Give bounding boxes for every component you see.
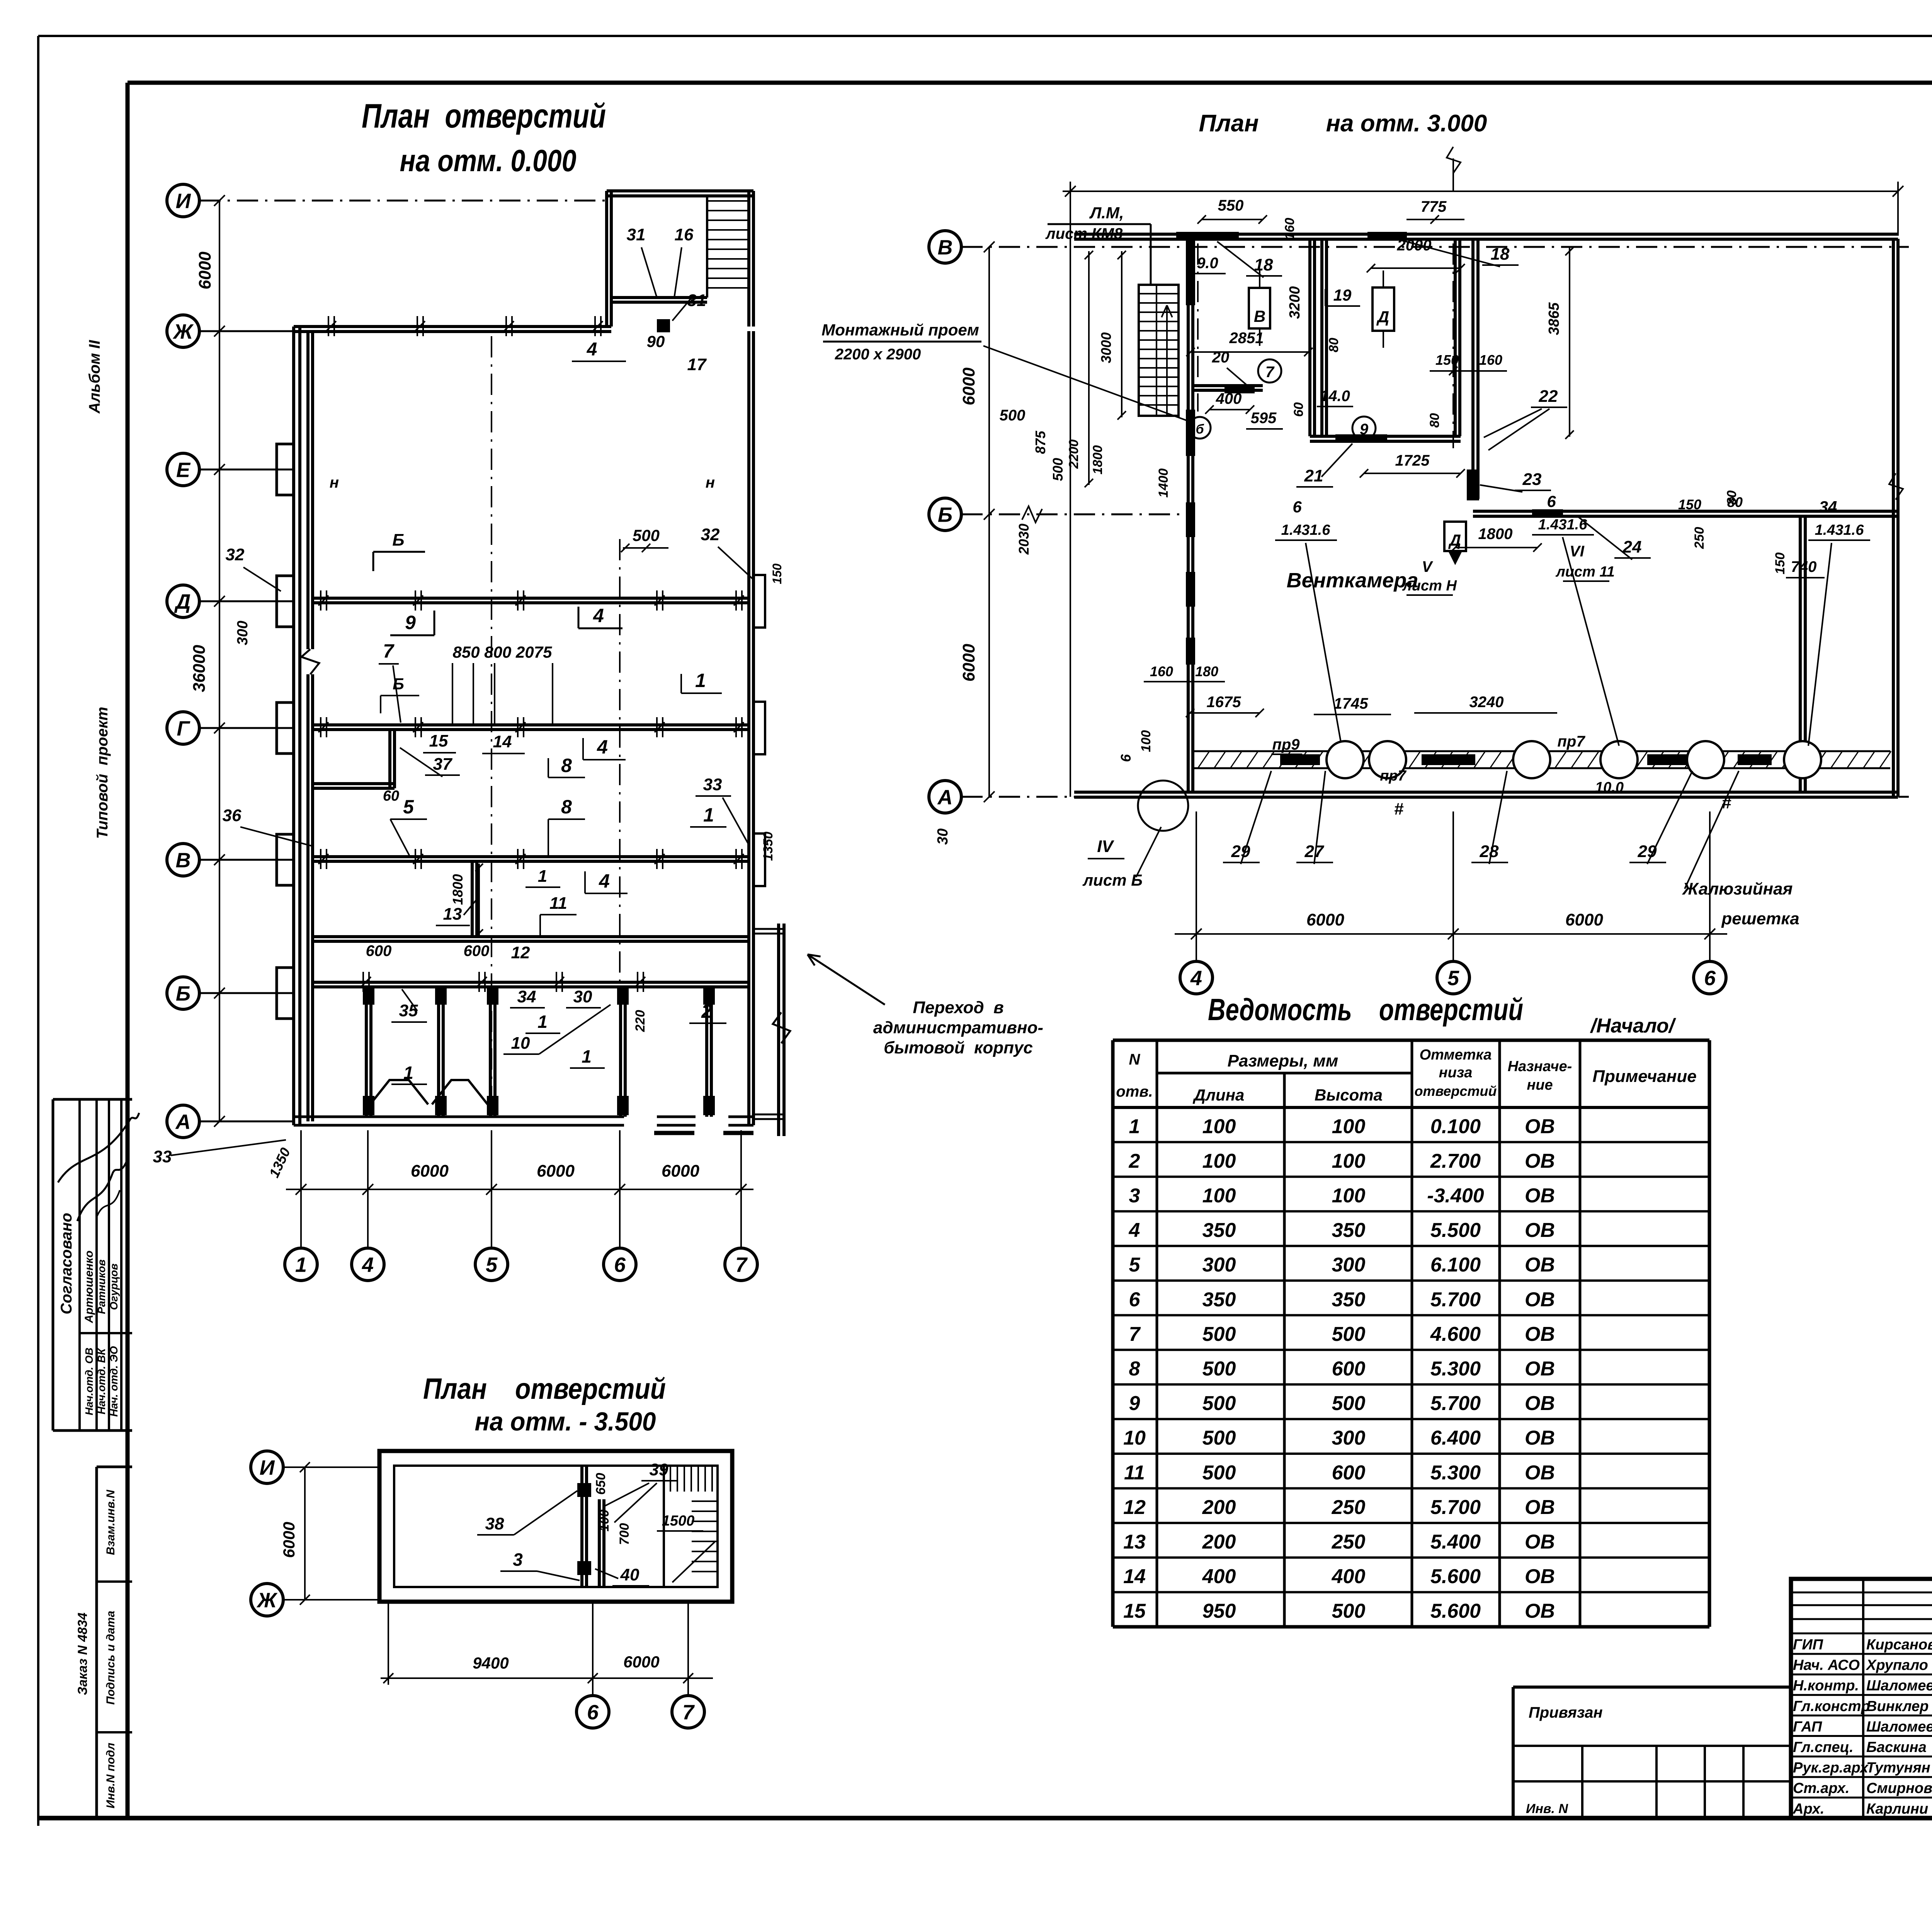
svg-text:6000: 6000: [411, 1162, 449, 1180]
svg-text:Л.М,: Л.М,: [1089, 204, 1124, 222]
svg-text:39: 39: [650, 1460, 668, 1479]
svg-text:ОВ: ОВ: [1525, 1392, 1555, 1415]
svg-text:9: 9: [1360, 421, 1369, 438]
svg-text:150: 150: [1773, 553, 1787, 575]
svg-text:850 800 2075: 850 800 2075: [453, 643, 553, 661]
svg-text:5: 5: [1447, 966, 1459, 990]
svg-text:7: 7: [682, 1701, 695, 1724]
svg-text:3000: 3000: [1098, 332, 1114, 363]
svg-text:ОВ: ОВ: [1525, 1254, 1555, 1276]
svg-text:IV: IV: [1097, 837, 1114, 856]
svg-text:1400: 1400: [1156, 468, 1171, 498]
svg-text:180: 180: [1195, 663, 1218, 679]
svg-text:Жалюзийная: Жалюзийная: [1682, 879, 1793, 898]
svg-text:23: 23: [1522, 470, 1542, 489]
svg-text:1: 1: [703, 804, 714, 826]
svg-text:Б: Б: [393, 675, 404, 693]
svg-text:38: 38: [485, 1514, 504, 1533]
svg-text:10: 10: [511, 1034, 530, 1053]
svg-text:Высота: Высота: [1315, 1086, 1383, 1104]
svg-text:5.700: 5.700: [1430, 1288, 1481, 1311]
svg-text:17: 17: [687, 355, 707, 374]
svg-text:административно-: административно-: [873, 1018, 1043, 1037]
svg-text:Отметка: Отметка: [1420, 1047, 1492, 1063]
svg-text:Нач.отд. ОВ: Нач.отд. ОВ: [83, 1347, 95, 1415]
svg-text:отверстий: отверстий: [1415, 1083, 1497, 1099]
svg-text:350: 350: [1202, 1219, 1236, 1242]
svg-text:1: 1: [1129, 1115, 1140, 1138]
svg-text:2.700: 2.700: [1430, 1150, 1481, 1172]
svg-text:500: 500: [1332, 1323, 1366, 1345]
svg-text:Шаломеев: Шаломеев: [1866, 1678, 1932, 1694]
svg-text:4: 4: [593, 605, 604, 626]
svg-text:80: 80: [1727, 494, 1743, 510]
svg-text:6: 6: [1547, 492, 1556, 510]
svg-text:6: 6: [1704, 966, 1716, 990]
svg-text:160: 160: [1150, 663, 1173, 679]
svg-text:28: 28: [1480, 842, 1499, 861]
svg-text:ОВ: ОВ: [1525, 1288, 1555, 1311]
svg-text:Шаломеев: Шаломеев: [1866, 1719, 1932, 1735]
svg-text:5.700: 5.700: [1430, 1392, 1481, 1415]
svg-text:Монтажный проем: Монтажный проем: [821, 321, 979, 339]
svg-text:5: 5: [403, 796, 414, 818]
svg-text:Б: Б: [938, 503, 952, 526]
svg-text:100: 100: [1202, 1150, 1236, 1172]
svg-text:ОВ: ОВ: [1525, 1531, 1555, 1553]
svg-text:Привязан: Привязан: [1529, 1704, 1603, 1721]
svg-text:14.0: 14.0: [1320, 388, 1350, 405]
svg-text:1: 1: [295, 1253, 307, 1276]
svg-text:6000: 6000: [662, 1162, 699, 1180]
svg-text:н: н: [706, 474, 715, 491]
svg-text:бытовой корпус: бытовой корпус: [884, 1038, 1033, 1057]
svg-text:Е: Е: [176, 458, 191, 481]
svg-text:150: 150: [770, 563, 784, 584]
svg-text:8: 8: [561, 755, 572, 776]
svg-text:1.431.6: 1.431.6: [1538, 517, 1588, 533]
svg-text:2: 2: [701, 1000, 712, 1022]
svg-text:12: 12: [1123, 1496, 1146, 1519]
svg-text:1800: 1800: [450, 874, 466, 905]
svg-text:19: 19: [1333, 286, 1352, 304]
svg-text:20: 20: [1212, 349, 1230, 366]
svg-text:Инв. N: Инв. N: [1526, 1801, 1568, 1816]
svg-text:1800: 1800: [1478, 526, 1513, 543]
svg-text:9.0: 9.0: [1197, 255, 1218, 272]
svg-text:30: 30: [573, 987, 592, 1006]
svg-text:250: 250: [1332, 1531, 1366, 1553]
svg-text:Кирсанов: Кирсанов: [1866, 1636, 1932, 1653]
svg-text:4: 4: [599, 870, 610, 892]
svg-text:Примечание: Примечание: [1592, 1067, 1696, 1086]
svg-text:Нач. АСО: Нач. АСО: [1793, 1657, 1860, 1674]
svg-text:1725: 1725: [1395, 452, 1430, 469]
svg-text:600: 600: [366, 942, 392, 959]
svg-text:32: 32: [226, 545, 245, 564]
svg-text:5.600: 5.600: [1430, 1565, 1481, 1588]
svg-text:лист КМ8: лист КМ8: [1045, 225, 1123, 242]
svg-text:Альбом II: Альбом II: [86, 340, 103, 414]
svg-text:500: 500: [1050, 458, 1066, 481]
svg-text:ОВ: ОВ: [1525, 1600, 1555, 1623]
svg-text:80: 80: [1427, 413, 1442, 428]
svg-text:ОВ: ОВ: [1525, 1427, 1555, 1449]
svg-text:7: 7: [735, 1253, 748, 1276]
svg-text:200: 200: [1202, 1496, 1236, 1519]
svg-text:2: 2: [1129, 1150, 1140, 1172]
svg-text:700: 700: [617, 1523, 632, 1545]
svg-text:ОВ: ОВ: [1525, 1461, 1555, 1484]
svg-text:ГАП: ГАП: [1793, 1719, 1822, 1735]
svg-text:Ратников: Ратников: [95, 1259, 107, 1314]
svg-text:Ж: Ж: [172, 320, 194, 343]
svg-text:100: 100: [1202, 1185, 1236, 1207]
svg-text:Типовой проект: Типовой проект: [94, 707, 111, 839]
svg-text:План отверстий: План отверстий: [362, 97, 606, 135]
svg-text:Переход в: Переход в: [913, 998, 1003, 1017]
svg-text:Карлини: Карлини: [1866, 1801, 1928, 1817]
svg-text:500: 500: [633, 526, 660, 544]
svg-text:1: 1: [695, 670, 706, 691]
svg-text:21: 21: [1304, 466, 1323, 485]
svg-text:ОВ: ОВ: [1525, 1115, 1555, 1138]
svg-text:9: 9: [405, 612, 416, 633]
svg-text:План отверстий: План отверстий: [423, 1373, 666, 1405]
svg-text:6000: 6000: [280, 1522, 298, 1558]
svg-text:Тутунян: Тутунян: [1866, 1760, 1930, 1776]
svg-text:33: 33: [153, 1147, 172, 1166]
svg-text:150: 150: [1678, 497, 1701, 512]
svg-text:ОВ: ОВ: [1525, 1496, 1555, 1519]
svg-text:Гл.констр: Гл.констр: [1793, 1698, 1870, 1715]
svg-text:1350: 1350: [266, 1145, 293, 1180]
svg-text:н: н: [330, 474, 339, 491]
svg-text:5.600: 5.600: [1430, 1600, 1481, 1623]
svg-text:2000: 2000: [1397, 237, 1432, 254]
svg-text:220: 220: [633, 1010, 648, 1032]
svg-text:300: 300: [1332, 1254, 1366, 1276]
svg-text:31: 31: [627, 225, 646, 244]
svg-text:6: 6: [1118, 754, 1134, 762]
svg-text:Нач. отд. ЭО: Нач. отд. ЭО: [108, 1346, 120, 1417]
svg-text:План: План: [1199, 110, 1259, 137]
svg-text:9: 9: [1129, 1392, 1140, 1415]
svg-text:Ж: Ж: [256, 1589, 278, 1612]
svg-text:отв.: отв.: [1116, 1083, 1153, 1100]
svg-text:550: 550: [1218, 197, 1244, 214]
svg-text:Артюшенко: Артюшенко: [83, 1250, 95, 1323]
svg-text:34: 34: [517, 987, 536, 1006]
svg-text:150: 150: [1435, 352, 1459, 368]
svg-text:6.100: 6.100: [1430, 1254, 1481, 1276]
svg-text:ОВ: ОВ: [1525, 1323, 1555, 1345]
svg-text:950: 950: [1202, 1600, 1236, 1623]
svg-text:3240: 3240: [1469, 694, 1504, 711]
svg-text:5: 5: [1129, 1254, 1141, 1276]
svg-text:250: 250: [1692, 527, 1707, 549]
svg-text:11: 11: [1124, 1461, 1145, 1484]
svg-text:300: 300: [235, 621, 251, 645]
svg-text:10: 10: [1123, 1427, 1146, 1449]
svg-text:3865: 3865: [1546, 302, 1562, 335]
svg-text:13: 13: [443, 905, 462, 924]
svg-text:100: 100: [1332, 1115, 1366, 1138]
svg-text:6000: 6000: [1306, 910, 1344, 929]
svg-text:В: В: [176, 849, 191, 872]
svg-text:VI: VI: [1570, 543, 1585, 560]
svg-text:Г: Г: [177, 717, 190, 740]
svg-text:Заказ N 4834: Заказ N 4834: [75, 1613, 90, 1695]
svg-text:18: 18: [1491, 245, 1510, 264]
svg-text:36: 36: [223, 806, 241, 825]
svg-text:низа: низа: [1439, 1065, 1473, 1081]
svg-text:100: 100: [1202, 1115, 1236, 1138]
svg-text:1: 1: [537, 1012, 548, 1032]
svg-text:Баскина: Баскина: [1866, 1739, 1927, 1755]
svg-text:8: 8: [1129, 1358, 1140, 1380]
svg-text:60: 60: [1291, 402, 1306, 417]
svg-text:595: 595: [1251, 410, 1277, 427]
svg-text:350: 350: [1332, 1219, 1366, 1242]
svg-text:90: 90: [647, 332, 665, 350]
svg-text:5.300: 5.300: [1430, 1358, 1481, 1380]
svg-text:Инв.N подл: Инв.N подл: [104, 1743, 117, 1808]
svg-text:32: 32: [701, 525, 720, 544]
svg-text:Ведомость отверстий: Ведомость отверстий: [1208, 992, 1523, 1027]
svg-text:Размеры, мм: Размеры, мм: [1228, 1051, 1338, 1070]
svg-text:500: 500: [1202, 1323, 1236, 1345]
svg-text:1800: 1800: [1090, 445, 1105, 475]
svg-text:7: 7: [383, 640, 395, 662]
svg-text:600: 600: [1332, 1461, 1366, 1484]
svg-text:ОВ: ОВ: [1525, 1219, 1555, 1242]
svg-text:4: 4: [587, 339, 597, 360]
svg-text:А: А: [175, 1110, 191, 1133]
svg-text:-3.400: -3.400: [1427, 1185, 1484, 1207]
svg-text:100: 100: [1332, 1185, 1366, 1207]
svg-text:6000: 6000: [959, 367, 978, 405]
svg-text:Хрупало: Хрупало: [1866, 1657, 1928, 1674]
svg-text:350: 350: [1202, 1288, 1236, 1311]
svg-text:4.600: 4.600: [1430, 1323, 1481, 1345]
svg-text:на отм. - 3.500: на отм. - 3.500: [475, 1407, 656, 1436]
svg-text:15: 15: [429, 731, 448, 750]
svg-text:ОВ: ОВ: [1525, 1150, 1555, 1172]
svg-text:5.400: 5.400: [1430, 1531, 1481, 1553]
svg-text:Д: Д: [1376, 308, 1389, 326]
svg-text:16: 16: [675, 225, 694, 244]
svg-text:Д: Д: [1448, 531, 1461, 549]
svg-text:1350: 1350: [761, 832, 776, 861]
svg-text:500: 500: [1000, 407, 1026, 424]
svg-text:1.431.6: 1.431.6: [1815, 522, 1864, 538]
svg-text:Взам.инв.N: Взам.инв.N: [104, 1489, 117, 1555]
svg-text:ОВ: ОВ: [1525, 1185, 1555, 1207]
svg-text:N: N: [1129, 1051, 1141, 1068]
svg-text:300: 300: [1332, 1427, 1366, 1449]
svg-text:37: 37: [433, 755, 453, 774]
svg-text:на отм. 0.000: на отм. 0.000: [400, 143, 577, 178]
svg-text:лист 11: лист 11: [1555, 564, 1615, 580]
svg-text:12: 12: [511, 943, 530, 962]
svg-text:1: 1: [582, 1046, 592, 1067]
svg-text:600: 600: [1332, 1358, 1366, 1380]
svg-text:В: В: [1254, 307, 1265, 325]
svg-text:10.0: 10.0: [1595, 779, 1624, 796]
svg-text:9400: 9400: [473, 1654, 509, 1672]
svg-text:Арх.: Арх.: [1793, 1801, 1824, 1817]
svg-text:1: 1: [538, 867, 547, 886]
svg-text:Н.контр.: Н.контр.: [1793, 1678, 1859, 1694]
svg-text:1: 1: [403, 1063, 413, 1083]
svg-text:740: 740: [1791, 558, 1817, 575]
svg-text:100: 100: [1139, 730, 1153, 752]
svg-text:500: 500: [1202, 1427, 1236, 1449]
svg-text:пр7: пр7: [1380, 768, 1406, 784]
svg-text:60: 60: [383, 788, 399, 804]
svg-text:300: 300: [1202, 1254, 1236, 1276]
svg-text:0.100: 0.100: [1430, 1115, 1481, 1138]
svg-text:Б: Б: [176, 982, 190, 1005]
svg-text:13: 13: [1123, 1531, 1146, 1553]
svg-text:1500: 1500: [662, 1513, 695, 1529]
svg-text:4: 4: [1129, 1219, 1140, 1242]
svg-text:600: 600: [464, 942, 490, 959]
svg-text:2030: 2030: [1016, 524, 1032, 555]
svg-text:Д: Д: [174, 590, 191, 613]
svg-text:Венткамера: Венткамера: [1287, 569, 1418, 592]
svg-text:500: 500: [1332, 1392, 1366, 1415]
svg-text:14: 14: [1123, 1565, 1146, 1588]
svg-text:3: 3: [513, 1550, 523, 1570]
svg-text:650: 650: [594, 1473, 608, 1495]
svg-text:500: 500: [1202, 1358, 1236, 1380]
svg-text:ГИП: ГИП: [1793, 1636, 1823, 1653]
svg-text:400: 400: [1332, 1565, 1366, 1588]
svg-text:И: И: [176, 189, 191, 213]
svg-text:/Начало/: /Начало/: [1590, 1015, 1677, 1037]
svg-text:И: И: [260, 1456, 275, 1479]
svg-text:250: 250: [1332, 1496, 1366, 1519]
svg-text:6000: 6000: [959, 644, 978, 682]
svg-text:лист Б: лист Б: [1082, 871, 1143, 889]
svg-text:б: б: [1196, 422, 1204, 437]
svg-text:33: 33: [703, 775, 722, 794]
svg-text:Винклер: Винклер: [1866, 1698, 1929, 1715]
svg-text:80: 80: [1327, 338, 1341, 352]
svg-text:5.700: 5.700: [1430, 1496, 1481, 1519]
svg-text:1745: 1745: [1334, 695, 1369, 712]
svg-text:3: 3: [1129, 1185, 1140, 1207]
svg-text:пр7: пр7: [1557, 733, 1585, 750]
svg-text:775: 775: [1421, 198, 1447, 215]
svg-text:Длина: Длина: [1193, 1086, 1245, 1104]
svg-text:ОВ: ОВ: [1525, 1358, 1555, 1380]
svg-text:1675: 1675: [1207, 694, 1242, 711]
svg-text:6: 6: [614, 1253, 626, 1276]
svg-text:пр9: пр9: [1272, 736, 1300, 753]
svg-text:V: V: [1422, 558, 1434, 575]
svg-text:Гл.спец.: Гл.спец.: [1793, 1739, 1854, 1755]
svg-text:1.431.6: 1.431.6: [1281, 522, 1331, 538]
svg-text:Рук.гр.арх: Рук.гр.арх: [1793, 1760, 1869, 1776]
svg-text:100: 100: [597, 1510, 612, 1532]
svg-text:35: 35: [399, 1001, 418, 1020]
svg-text:36000: 36000: [190, 645, 209, 692]
svg-text:500: 500: [1202, 1461, 1236, 1484]
svg-text:8: 8: [561, 796, 572, 818]
svg-text:6000: 6000: [1565, 910, 1603, 929]
svg-text:500: 500: [1332, 1600, 1366, 1623]
svg-text:на отм. 3.000: на отм. 3.000: [1326, 110, 1487, 137]
svg-text:Огурцов: Огурцов: [108, 1264, 120, 1310]
svg-text:400: 400: [1202, 1565, 1236, 1588]
svg-text:6: 6: [1129, 1288, 1141, 1311]
svg-text:5: 5: [486, 1253, 498, 1276]
svg-text:875: 875: [1032, 430, 1048, 454]
svg-text:решетка: решетка: [1721, 909, 1799, 928]
svg-text:А: А: [937, 786, 953, 809]
svg-text:11: 11: [549, 894, 567, 913]
svg-text:#: #: [1394, 799, 1404, 818]
svg-text:500: 500: [1202, 1392, 1236, 1415]
svg-text:В: В: [938, 236, 953, 259]
svg-text:6.400: 6.400: [1430, 1427, 1481, 1449]
svg-text:Назначе-: Назначе-: [1508, 1058, 1572, 1075]
svg-text:Смирнова: Смирнова: [1866, 1780, 1932, 1796]
svg-text:30: 30: [935, 828, 951, 845]
svg-text:ОВ: ОВ: [1525, 1565, 1555, 1588]
svg-text:400: 400: [1216, 390, 1242, 407]
svg-text:Б: Б: [392, 531, 404, 549]
svg-text:2200: 2200: [1066, 439, 1081, 469]
svg-text:4: 4: [597, 736, 608, 758]
svg-text:6000: 6000: [623, 1653, 659, 1671]
svg-text:160: 160: [1479, 352, 1502, 368]
svg-text:Ст.арх.: Ст.арх.: [1793, 1780, 1849, 1796]
svg-text:5.500: 5.500: [1430, 1219, 1481, 1242]
svg-text:7: 7: [1129, 1323, 1141, 1345]
svg-text:160: 160: [1282, 218, 1297, 240]
svg-text:лист Н: лист Н: [1402, 578, 1457, 594]
svg-text:5.300: 5.300: [1430, 1461, 1481, 1484]
svg-text:3200: 3200: [1287, 286, 1303, 319]
svg-text:6000: 6000: [196, 252, 214, 289]
svg-text:15: 15: [1123, 1600, 1146, 1623]
svg-text:7: 7: [1265, 364, 1275, 381]
svg-text:2200 х 2900: 2200 х 2900: [835, 346, 921, 363]
svg-text:6: 6: [587, 1701, 599, 1724]
svg-text:6: 6: [1293, 498, 1302, 516]
svg-text:Подпись и дата: Подпись и дата: [104, 1611, 117, 1704]
svg-text:Согласовано: Согласовано: [58, 1213, 75, 1315]
svg-text:2851: 2851: [1229, 330, 1264, 347]
svg-text:200: 200: [1202, 1531, 1236, 1553]
svg-text:22: 22: [1539, 387, 1558, 406]
svg-text:100: 100: [1332, 1150, 1366, 1172]
svg-text:14: 14: [493, 732, 512, 751]
svg-text:4: 4: [1190, 966, 1202, 990]
svg-text:350: 350: [1332, 1288, 1366, 1311]
svg-text:6000: 6000: [537, 1162, 575, 1180]
svg-text:4: 4: [362, 1253, 374, 1276]
svg-text:40: 40: [620, 1565, 639, 1584]
svg-text:Нач.отд. ВК: Нач.отд. ВК: [95, 1348, 107, 1415]
svg-text:ние: ние: [1527, 1077, 1553, 1093]
svg-text:34: 34: [1819, 498, 1837, 516]
